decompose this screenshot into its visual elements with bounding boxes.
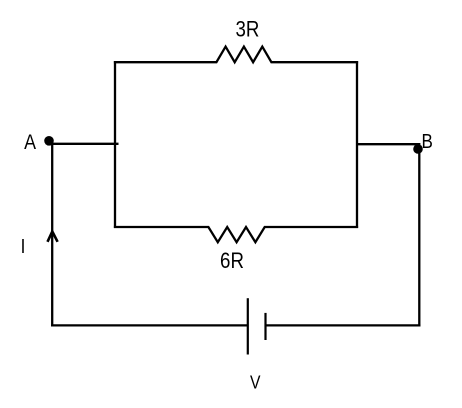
svg-text:B: B: [422, 130, 433, 153]
svg-text:A: A: [24, 131, 36, 155]
svg-text:6R: 6R: [220, 250, 244, 274]
svg-text:3R: 3R: [235, 18, 259, 42]
svg-text:I: I: [21, 235, 26, 258]
svg-text:V: V: [250, 371, 261, 393]
